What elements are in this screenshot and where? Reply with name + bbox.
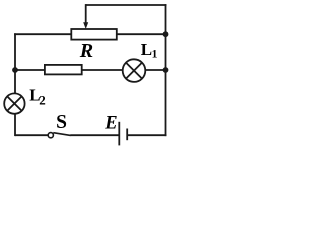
svg-text:L: L [141, 40, 152, 59]
wire: slider arrow shaft [85, 4, 87, 23]
wire: top-left horizontal to rheostat [14, 33, 71, 35]
wire: rheostat right lead [117, 33, 166, 35]
svg-text:E: E [104, 114, 117, 134]
wire: lamp L1 to right vertical [145, 69, 165, 71]
junction node: middle branch / left wire [12, 67, 18, 73]
switch S pivot circle [48, 133, 53, 138]
wire: left vertical bottom section [14, 114, 16, 136]
lamp L2 [4, 93, 24, 113]
junction node: rheostat lead / right wire [163, 31, 169, 37]
wire: switch to battery [70, 134, 119, 136]
switch S blade [53, 133, 70, 136]
wire: resistor to lamp L1 [82, 69, 123, 71]
wire: battery to bottom right corner [127, 134, 166, 136]
rheostat slider arrowhead [83, 22, 88, 29]
wire: top slider loop horizontal [86, 4, 167, 6]
battery long plate [118, 122, 120, 146]
resistor body (middle branch) [45, 65, 82, 75]
svg-text:S: S [56, 112, 67, 133]
svg-text:R: R [79, 40, 93, 62]
wire: left vertical top section [14, 33, 16, 93]
svg-text:1: 1 [152, 49, 158, 61]
rheostat R body [71, 29, 117, 40]
junction node: L1 branch / right wire [163, 67, 169, 73]
svg-text:2: 2 [39, 93, 46, 108]
battery short plate [126, 129, 128, 141]
wire: right vertical [165, 4, 167, 136]
lamp L1 [123, 59, 146, 82]
wire: bottom left to switch [15, 134, 48, 136]
wire: middle branch left segment [15, 69, 45, 71]
